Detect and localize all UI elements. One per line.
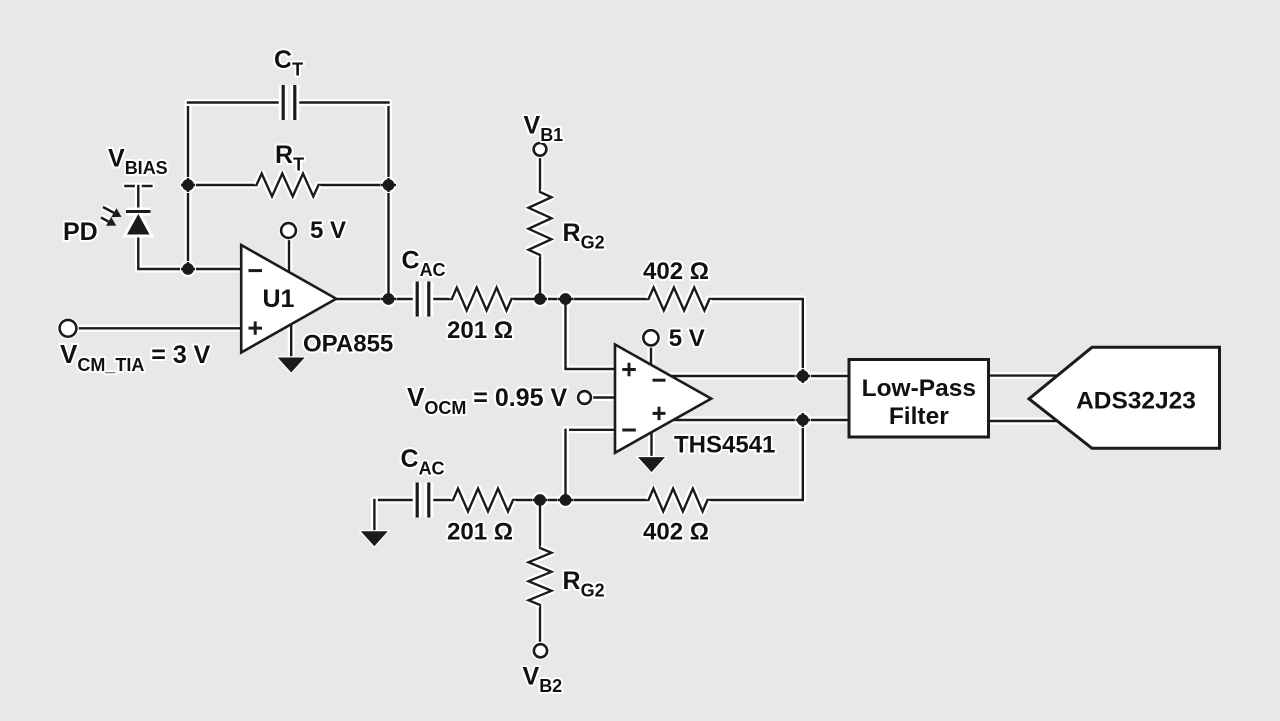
wire: ground riser (bottom)	[371, 500, 378, 531]
block: ADS32J23 ADC	[1029, 347, 1220, 448]
wire: C_T top right segment	[295, 99, 389, 106]
terminal U1 5V	[279, 221, 299, 241]
resistor 402ohm (bottom)	[649, 489, 708, 512]
wire: node B to - input riser	[562, 430, 569, 500]
junction: node A bottom	[532, 492, 548, 508]
junction: out+ node	[795, 412, 811, 428]
junction: R_T left	[180, 177, 196, 193]
wire: to THS4541 - input	[566, 426, 616, 433]
wire: C_AC to 201ohm (top)	[429, 296, 452, 303]
wire: THS4541 out+ to LPF	[670, 417, 849, 424]
wire: LPF to ADC (top)	[988, 372, 1058, 379]
resistor 402ohm (top)	[649, 288, 710, 311]
resistor R_T	[257, 174, 319, 197]
wire: V_BIAS drop	[135, 186, 142, 211]
capacitor C_AC (bottom)	[417, 483, 429, 518]
wire: C_T top left segment	[188, 99, 283, 106]
svg-text:402 Ω: 402 Ω	[643, 258, 709, 285]
capacitor C_T	[283, 85, 295, 120]
resistor 201ohm (bottom)	[453, 489, 513, 512]
wire: V_BIAS bar	[125, 183, 151, 190]
terminal V_B1	[531, 141, 549, 159]
wire: R_T left lead	[188, 182, 257, 189]
terminal THS4541 5V	[641, 328, 661, 348]
junction: out- node	[795, 368, 811, 384]
op-amp THS4541 fully-differential	[615, 345, 711, 453]
wire: 201ohm to 402ohm node (top)	[512, 296, 649, 303]
wire: THS4541 out- to LPF	[668, 373, 849, 380]
svg-text:ADS32J23: ADS32J23	[1076, 388, 1196, 415]
svg-text:Filter: Filter	[889, 403, 949, 430]
junction: node B top	[558, 291, 574, 307]
svg-text:THS4541: THS4541	[674, 432, 775, 459]
wire: C_AC to 201ohm (bottom)	[429, 497, 453, 504]
wire: R_T right lead	[319, 182, 389, 189]
svg-text:PD: PD	[63, 218, 98, 246]
wire: node to R_G2 (bottom)	[537, 500, 544, 548]
junction: U1 output node	[381, 291, 397, 307]
op-amp U1 (OPA855)	[241, 245, 336, 353]
wire: V_CM_TIA to U1 + input	[77, 325, 242, 332]
capacitor C_AC (top)	[417, 282, 429, 317]
PD light arrows	[101, 207, 122, 226]
svg-text:5 V: 5 V	[669, 325, 705, 352]
svg-text:U1: U1	[263, 285, 295, 313]
resistor 201ohm (top)	[452, 288, 512, 311]
terminal V_B2	[532, 642, 550, 660]
wire: 402ohm to output (bottom)	[708, 420, 803, 500]
wire: R_G2 to node (top)	[537, 255, 544, 299]
wire: U1 5V stub	[286, 237, 293, 271]
wire: U1 output to C_AC	[336, 296, 417, 303]
wire: ground to C_AC (bottom)	[374, 497, 417, 504]
junction: R_T right	[381, 177, 397, 193]
photodiode PD	[126, 212, 151, 235]
wire: V_B1 to R_G2	[537, 156, 544, 192]
svg-text:201 Ω: 201 Ω	[447, 317, 513, 344]
block: Low-Pass Filter	[849, 360, 989, 438]
resistor R_G2 (top)	[529, 192, 552, 255]
wire: V_OCM to THS4541	[592, 394, 615, 401]
svg-text:OPA855: OPA855	[303, 331, 393, 358]
junction: inverting input node	[180, 261, 196, 277]
wire: THS4541 ground stub	[648, 432, 655, 457]
wire: R_G2 to V_B2	[537, 605, 544, 644]
svg-text:5 V: 5 V	[310, 217, 346, 244]
wire: LPF to ADC (bottom)	[988, 418, 1058, 425]
svg-text:201 Ω: 201 Ω	[447, 519, 513, 546]
wire: 402ohm to output (top)	[710, 299, 803, 376]
svg-text:402 Ω: 402 Ω	[643, 519, 709, 546]
ground (U1)	[278, 358, 305, 373]
ground (bottom input)	[361, 531, 388, 546]
wire: PD to U1 inverting input	[138, 235, 241, 270]
wire: U1 ground stub	[288, 322, 295, 358]
terminal V_CM_TIA	[57, 318, 79, 340]
wire: THS4541 5V stub	[648, 345, 655, 364]
wire: C_T loop left vertical	[185, 103, 192, 270]
junction: node B bottom	[558, 492, 574, 508]
svg-text:Low-Pass: Low-Pass	[862, 375, 976, 402]
junction: node A top	[532, 291, 548, 307]
resistor R_G2 (bottom)	[529, 548, 552, 605]
terminal V_OCM	[576, 389, 594, 407]
ground (THS4541)	[638, 457, 665, 472]
wire: node B to THS4541 + input	[566, 299, 616, 369]
wire: C_T loop right vertical	[385, 103, 392, 300]
wire: 201ohm to 402ohm node (bottom)	[513, 497, 649, 504]
